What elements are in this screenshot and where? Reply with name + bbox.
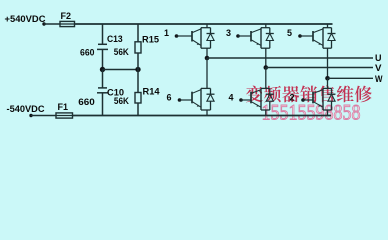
wire: bottom tie bar of Q4 [261,109,270,111]
svg-text:56K: 56K [114,96,129,106]
svg-text:F2: F2 [61,11,72,21]
wire: top tie bar of Q6 [201,87,211,89]
svg-text:W: W [375,74,383,84]
transistor Q3 collector stroke [252,29,262,33]
transistor Q3 gate bar [250,31,252,42]
svg-text:-540VDC: -540VDC [7,104,45,115]
gate terminal node of Q4 [239,98,243,102]
wire: top tie bar of Q5 [323,27,332,29]
wire: top tie bar of Q3 [261,27,270,29]
node: phase junction U [205,56,210,61]
wire: top tie bar of Q2 [323,87,332,89]
wire: top rail to resistor R15 [137,24,139,42]
fuse F2 [60,23,75,25]
freewheel diode of Q3 [269,28,271,34]
wire: gate lead of Q4 [241,99,251,101]
wire: top rail drop to Q3 [265,24,267,28]
svg-text:R14: R14 [143,87,160,97]
wire: bottom tie bar of Q1 [201,47,211,49]
svg-text:1: 1 [164,28,169,38]
resistor R14 [135,93,141,104]
transistor Q5 gate bar [312,31,314,42]
svg-text:V: V [375,63,382,73]
wire: -540V rail left of fuse F1 [31,115,56,117]
svg-text:F1: F1 [58,102,69,112]
transistor Q1 emitter stroke with arrow [193,40,202,45]
transistor Q5 collector-emitter line [322,28,324,49]
watermark text: 变频器销售维修 (inverter sales & repair) [246,85,263,102]
wire: bottom tie bar of Q2 [323,109,332,111]
wire: Q1 emitter to phase node [206,48,208,58]
capacitor C10 [98,87,107,89]
wire: gate lead of Q3 [238,35,251,37]
freewheel diode of Q1 [210,28,212,34]
wire: gate lead of Q2 [303,99,313,101]
svg-text:660: 660 [80,48,95,58]
node: midpoint right junction [135,67,140,72]
wire: Q6 emitter to bottom rail [206,110,208,116]
svg-text:5: 5 [287,28,292,38]
svg-text:2: 2 [290,93,295,103]
wire: midpoint to resistor R14 [137,70,139,93]
transistor Q6 emitter stroke with arrow [193,102,202,107]
transistor Q4 gate bar [250,92,252,104]
node: phase junction V [264,65,269,70]
freewheel diode of Q4 [269,88,271,94]
transistor Q6 collector stroke [193,90,202,94]
wire: +540V top rail [75,23,333,25]
wire: bottom tie bar of Q3 [261,47,270,49]
wire: R14 to bottom rail [137,103,139,116]
gate terminal node of Q5 [298,34,302,38]
svg-text:+540VDC: +540VDC [5,14,46,25]
svg-text:660: 660 [78,97,95,107]
wire: gate lead of Q6 [180,99,193,101]
wire: R15 to midpoint node [137,53,139,70]
wire: C10 to bottom rail [102,93,104,116]
wire: phase line U [207,57,373,59]
node: -540VDC terminal [29,114,32,117]
transistor Q5 emitter stroke with arrow [314,40,324,45]
transistor Q4 emitter stroke with arrow [252,102,262,107]
transistor Q3 collector-emitter line [260,28,262,49]
wire: bottom tie bar of Q6 [201,109,211,111]
transistor Q1 collector-emitter line [200,28,202,49]
wire: -540V bottom rail [73,115,332,117]
wire: +540V rail left of fuse F2 [44,23,60,25]
transistor Q3 emitter stroke with arrow [252,40,262,45]
node: midpoint left junction [100,67,105,72]
svg-text:R15: R15 [142,34,159,44]
transistor Q5 collector stroke [314,29,324,33]
transistor Q2 gate bar [312,92,314,104]
transistor Q4 collector-emitter line [260,88,262,110]
svg-text:C13: C13 [107,34,123,44]
wire: phase node down to Q2 [327,78,329,88]
svg-text:4: 4 [229,93,234,103]
circuit schematic: VFD inverter power stage [0,0,388,130]
svg-text:3: 3 [226,28,231,38]
svg-text:U: U [375,53,382,63]
wire: Q3 emitter to phase node [265,48,267,67]
fuse F1 [56,115,73,117]
transistor Q2 collector-emitter line [322,88,324,110]
freewheel diode of Q6 [210,88,212,94]
gate terminal node of Q6 [178,98,182,102]
wire: top rail to capacitor C13 [102,24,104,44]
transistor Q2 emitter stroke with arrow [314,102,324,107]
transistor Q1 gate bar [191,31,193,42]
wire: C13 to midpoint node [102,49,104,69]
wire: phase node down to Q6 [206,58,208,88]
capacitor C13 [98,43,107,45]
wire: Q2 emitter to bottom rail [327,110,329,116]
transistor Q4 collector stroke [252,90,262,94]
freewheel diode of Q5 [331,28,333,34]
wire: gate lead of Q5 [300,35,313,37]
wire: Q5 emitter to phase node [327,48,329,78]
svg-text:15515598858: 15515598858 [262,99,361,124]
gate terminal node of Q1 [175,34,179,38]
wire: bottom tie bar of Q5 [323,47,332,49]
wire: phase line V [266,67,373,69]
wire: top rail drop to Q5 [327,24,329,28]
wire: midpoint rail [103,69,139,71]
transistor Q6 collector-emitter line [200,88,202,110]
resistor R15 [135,42,141,53]
node: +540VDC terminal [42,22,45,25]
node: phase junction W [325,76,330,81]
freewheel diode of Q2 [331,88,333,94]
transistor Q1 collector stroke [193,29,202,33]
transistor Q2 collector stroke [314,90,324,94]
wire: top tie bar of Q1 [201,27,211,29]
svg-text:56K: 56K [114,47,129,57]
wire: gate lead of Q1 [177,35,193,37]
wire: phase node down to Q4 [265,68,267,89]
svg-text:6: 6 [167,93,172,103]
wire: midpoint to capacitor C10 [102,70,104,88]
transistor Q6 gate bar [191,92,193,104]
gate terminal node of Q3 [236,34,240,38]
wire: Q4 emitter to bottom rail [265,110,267,116]
wire: top tie bar of Q4 [261,87,270,89]
gate terminal node of Q2 [301,98,305,102]
wire: top rail drop to Q1 [206,24,208,28]
wire: phase line W [328,77,374,79]
